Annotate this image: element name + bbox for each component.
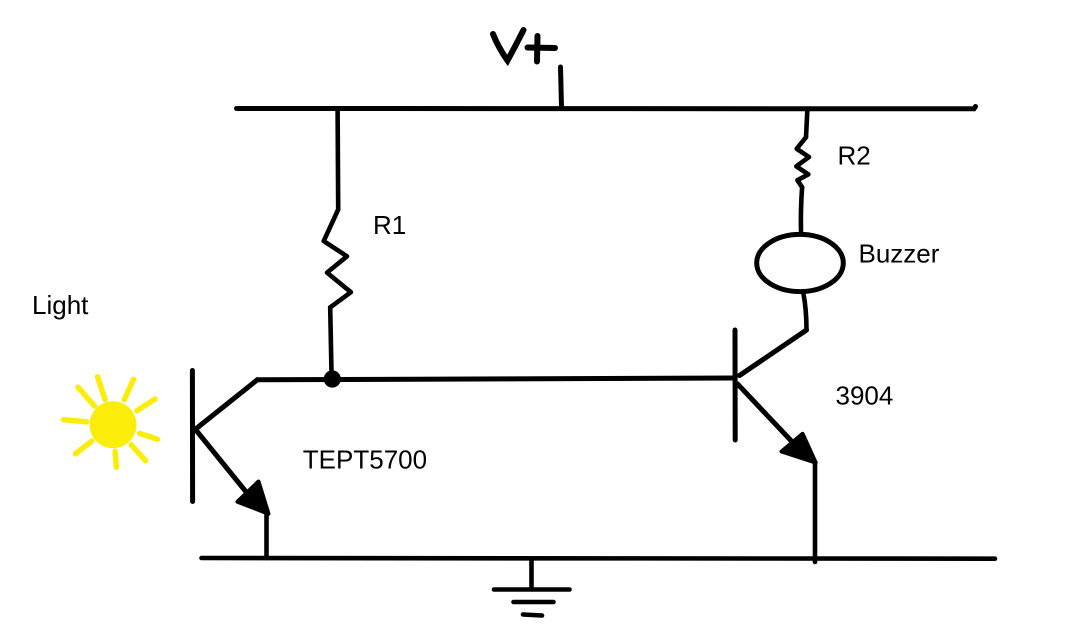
transistor Q2 3904 (NPN)	[735, 330, 807, 448]
wire: buzzer bottom to Q2 collector	[804, 294, 807, 330]
svg-text:R2: R2	[838, 140, 871, 170]
Q2 emitter arrowhead	[782, 434, 816, 463]
wire: ground rail (bottom)	[202, 556, 996, 561]
wire: V+ stub down to power rail	[561, 67, 562, 107]
V+ label (hand drawn)	[493, 30, 555, 62]
buzzer B1 (ellipse)	[757, 234, 844, 291]
wire: R1 top lead	[335, 109, 340, 210]
resistor R1 (zigzag)	[324, 210, 351, 308]
wire: R2 top lead	[806, 109, 807, 137]
wire: top power rail	[237, 107, 976, 109]
wire: Q1 emitter down to ground rail	[264, 512, 269, 558]
wire: R2 bottom lead to buzzer	[801, 187, 802, 231]
svg-text:R1: R1	[373, 210, 406, 240]
resistor R2 (zigzag)	[796, 137, 809, 187]
wire: Q2 emitter down to ground rail	[813, 462, 818, 562]
wire: R1 bottom lead	[330, 307, 331, 373]
node: junction dot at R1 / base wire	[324, 370, 341, 387]
sun icon (light source)	[64, 377, 158, 468]
svg-text:TEPT5700: TEPT5700	[303, 445, 427, 475]
svg-text:Light: Light	[32, 290, 89, 320]
Q1 emitter arrowhead	[238, 482, 269, 514]
ground symbol	[494, 559, 570, 616]
wire: horizontal node wire (Q1 collector to Q2 base)	[257, 378, 734, 380]
svg-text:3904: 3904	[836, 381, 894, 411]
svg-text:Buzzer: Buzzer	[859, 239, 940, 269]
transistor Q1 TEPT5700 (phototransistor)	[192, 371, 257, 502]
